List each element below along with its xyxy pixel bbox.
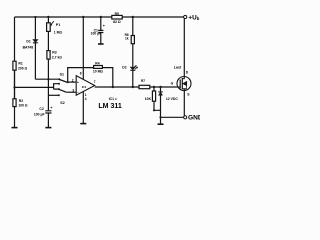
svg-text:Last: Last [174, 65, 182, 69]
svg-text:1 MΩ: 1 MΩ [54, 30, 63, 34]
resistor R5 [112, 15, 122, 19]
svg-text:12 VDC: 12 VDC [166, 97, 178, 101]
terminal +Ub [184, 15, 187, 18]
op-amp U1 comparator triangle [76, 76, 95, 96]
wire comparator pin3 input [66, 91, 76, 93]
wire pin8 supply [82, 17, 84, 80]
wire comparator pin2 input [67, 81, 77, 83]
resistor R8 10K lead [154, 87, 161, 110]
svg-text:200 Ω: 200 Ω [18, 66, 28, 70]
resistor R7 [139, 85, 150, 88]
svg-text:4: 4 [85, 97, 87, 101]
resistor R8 10K [152, 91, 155, 101]
junction dots [13, 16, 161, 119]
LED D2 [130, 65, 138, 70]
switch S2 arm [59, 89, 66, 92]
wire sensor S1 line [35, 78, 59, 80]
wire GND rail [161, 116, 184, 118]
svg-text:R7: R7 [141, 79, 145, 83]
svg-text:2,7 kΩ: 2,7 kΩ [52, 55, 63, 59]
svg-text:7: 7 [94, 80, 96, 84]
resistor R4 feedback wire [68, 68, 113, 87]
svg-text:10 MΩ: 10 MΩ [93, 69, 104, 73]
diode D1 [33, 40, 38, 43]
wire drain rail [183, 19, 185, 77]
svg-text:+: + [77, 80, 79, 84]
svg-text:G: G [171, 81, 174, 85]
ground IC1 [80, 123, 86, 125]
svg-text:R2: R2 [19, 99, 23, 103]
potentiometer P1 [47, 21, 54, 31]
svg-text:100 µF: 100 µF [91, 32, 102, 36]
resistor R6 [131, 36, 134, 44]
svg-text:IC1: IC1 [82, 85, 87, 89]
svg-text:100 µF: 100 µF [34, 113, 45, 117]
svg-text:S1: S1 [60, 73, 64, 77]
resistor R1 [13, 61, 16, 70]
svg-text:S2: S2 [60, 101, 64, 105]
svg-text:LM 311: LM 311 [98, 103, 121, 110]
svg-text:+Ub: +Ub [188, 14, 199, 21]
wire pin1 pin4 ground [82, 92, 84, 124]
wire top supply rail left [15, 16, 112, 18]
svg-text:2: 2 [72, 79, 74, 83]
svg-text:P1: P1 [56, 23, 60, 27]
terminal GND [184, 116, 187, 119]
diode D1 lead [34, 17, 36, 79]
wire top supply rail right [122, 16, 183, 18]
capacitor C1 [98, 30, 103, 32]
svg-text:D1: D1 [26, 39, 30, 43]
svg-text:R3: R3 [52, 51, 56, 55]
capacitor C2 [45, 111, 51, 113]
svg-text:−: − [77, 90, 79, 94]
resistor R6 LED chain wire [132, 17, 134, 87]
wire comparator output [95, 86, 178, 88]
wire divider midline [15, 86, 54, 88]
ground left rail [12, 127, 18, 129]
wire source to GND [183, 90, 185, 117]
svg-text:GND: GND [188, 115, 200, 122]
svg-text:100 Ω: 100 Ω [18, 103, 28, 107]
transistor Q1 MOSFET [177, 77, 191, 91]
potentiometer P1 chain wire [47, 17, 49, 127]
svg-text:1k: 1k [125, 36, 129, 40]
zener diode D3 lead [160, 87, 162, 124]
svg-text:BAT48: BAT48 [23, 46, 34, 50]
svg-text:R4: R4 [95, 61, 99, 65]
switch S1 arm [59, 79, 66, 82]
svg-text:10K: 10K [145, 97, 152, 101]
resistor R3 [47, 51, 50, 60]
svg-text:R1: R1 [18, 61, 22, 65]
capacitor C1 lead [100, 17, 102, 44]
svg-text:IC1 =: IC1 = [109, 97, 117, 101]
ground pot chain [45, 127, 51, 129]
ground zener [158, 123, 164, 125]
resistor R4 [94, 66, 103, 69]
zener diode D3 [158, 92, 162, 95]
wire sensor fork [54, 84, 59, 89]
wire left rail [14, 17, 16, 127]
svg-text:8: 8 [80, 72, 82, 76]
svg-text:C2: C2 [39, 107, 43, 111]
svg-text:82 Ω: 82 Ω [113, 20, 121, 24]
wire sensor S2 bottom stub [48, 94, 58, 96]
resistor R2 [13, 70, 16, 106]
svg-text:3: 3 [72, 88, 74, 92]
ground C1 [98, 43, 104, 45]
svg-text:R5: R5 [115, 12, 119, 16]
svg-text:D2: D2 [122, 65, 126, 69]
